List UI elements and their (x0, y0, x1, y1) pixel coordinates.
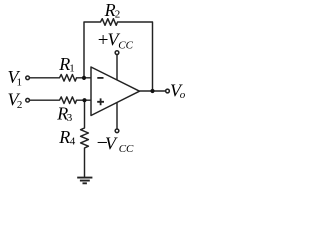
svg-text:o: o (180, 89, 186, 101)
svg-text:3: 3 (67, 112, 73, 124)
svg-text:CC: CC (119, 143, 134, 155)
svg-text:R: R (58, 127, 70, 147)
svg-text:V: V (105, 134, 118, 154)
svg-text:2: 2 (115, 9, 121, 21)
svg-text:R: R (104, 0, 116, 20)
svg-text:1: 1 (17, 76, 23, 88)
svg-text:2: 2 (17, 99, 23, 111)
svg-text:1: 1 (69, 62, 75, 74)
svg-text:CC: CC (118, 40, 133, 52)
svg-text:4: 4 (70, 135, 76, 147)
